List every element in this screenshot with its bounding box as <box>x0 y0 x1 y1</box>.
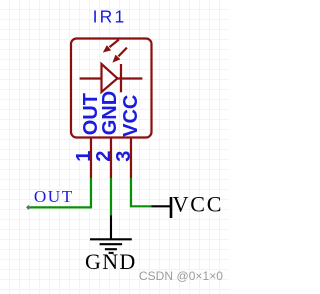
photodiode D (symbol inside IR1) <box>80 64 143 92</box>
ground symbol <box>90 216 132 253</box>
grid (decorative) <box>0 0 229 294</box>
svg-text:VCC: VCC <box>173 192 224 217</box>
svg-text:OUT: OUT <box>34 187 74 206</box>
IR receiver U body box <box>71 39 152 138</box>
svg-text:IR1: IR1 <box>93 6 127 26</box>
svg-text:GND: GND <box>99 91 121 135</box>
net label anchor dot <box>26 205 31 210</box>
pin 3 VCC <box>130 137 132 179</box>
svg-text:CSDN @0×1×0: CSDN @0×1×0 <box>139 269 223 283</box>
svg-text:1: 1 <box>73 151 95 162</box>
wire pin2 to ground <box>110 178 112 216</box>
svg-text:2: 2 <box>93 151 115 162</box>
wire pin1 to OUT net <box>28 178 91 207</box>
pin 1 OUT <box>90 137 92 179</box>
light arrow 2 <box>112 48 127 63</box>
VCC power flag <box>151 197 171 218</box>
svg-text:GND: GND <box>85 249 137 274</box>
pin 2 GND <box>110 137 112 179</box>
svg-text:VCC: VCC <box>120 95 142 137</box>
svg-text:3: 3 <box>113 151 135 162</box>
light arrow 1 <box>103 40 119 53</box>
wire pin3 to VCC <box>131 178 151 206</box>
